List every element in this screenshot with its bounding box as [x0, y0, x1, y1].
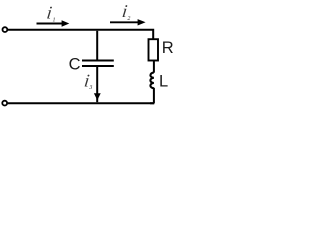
inductor L (3 loops): [150, 73, 154, 89]
wire capacitor top stub: [96, 31, 98, 60]
svg-text:3: 3: [88, 85, 92, 91]
current arrow i3 (capacitor branch, pointing down): [94, 93, 101, 100]
wire top (from T1 to right branch corner): [8, 30, 155, 39]
label i2: [121, 1, 130, 22]
resistor R: [149, 39, 159, 60]
wire inductor-to-bottom: [150, 88, 154, 104]
terminal T2 (bottom-left input): [2, 101, 7, 106]
label i1: [46, 2, 56, 23]
capacitor C plates: [82, 61, 114, 67]
svg-text:L: L: [159, 72, 168, 90]
current arrow i1: [37, 20, 70, 27]
svg-text:R: R: [162, 39, 174, 57]
wire bottom (from T2 to right branch corner): [8, 102, 155, 104]
svg-text:2: 2: [127, 16, 130, 22]
svg-text:1: 1: [53, 17, 56, 23]
label i3: [83, 71, 92, 91]
label R: [162, 39, 174, 57]
wire capacitor bottom stub: [96, 67, 98, 102]
label L: [159, 72, 168, 90]
terminal T1 (top-left input): [3, 27, 8, 32]
current arrow i2: [110, 19, 146, 25]
wire resistor-to-inductor: [153, 61, 155, 73]
svg-text:C: C: [69, 56, 81, 74]
label C: [69, 56, 81, 74]
